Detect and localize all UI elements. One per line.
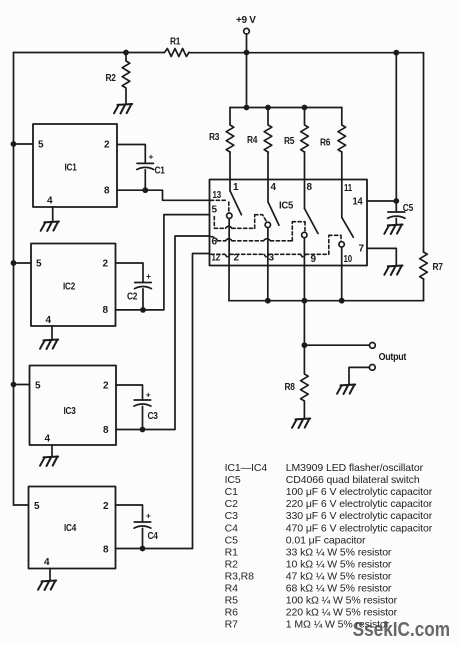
wire dashed control pin 13 to switch 1 [211,200,229,212]
svg-text:R5: R5 [284,136,295,147]
svg-text:+: + [146,511,151,521]
svg-text:+9 V: +9 V [236,15,256,26]
svg-text:C3: C3 [225,510,238,522]
svg-text:8: 8 [103,425,109,436]
ground IC1 pin 4 [41,222,59,232]
svg-text:7: 7 [359,244,365,255]
node junction +9V on bus [244,105,250,111]
wire output bus [229,300,424,302]
wire dashed control pin 6 to switch 3 [211,222,306,241]
node junction R4 on bus [265,105,271,111]
svg-text:Output: Output [379,352,407,363]
wire IC4 pin 8 to IC5 pin 12 [116,254,210,549]
svg-text:220 μF 6 V electrolytic capaci: 220 μF 6 V electrolytic capacitor [286,498,433,510]
ground output return [337,385,355,395]
switch 2 arm [268,202,279,225]
svg-text:5: 5 [34,501,40,512]
node junction IC4 pin 8 / C4 [140,546,146,552]
switch 4 arm [342,217,354,237]
op IC2 block [31,244,116,327]
wire IC2 pin 4 stub [51,326,53,340]
node junction +9V/top rail [244,50,250,56]
svg-text:10 kΩ ¼ W 5% resistor: 10 kΩ ¼ W 5% resistor [286,558,392,570]
switch 4 contact [339,242,344,247]
svg-text:2: 2 [103,501,109,512]
svg-text:IC1—IC4: IC1—IC4 [225,462,268,474]
svg-text:C5: C5 [403,203,414,214]
svg-text:5: 5 [212,205,218,216]
resistor R5 [284,108,308,153]
wire top rail right of R1 [189,52,424,54]
svg-text:4: 4 [47,196,53,207]
wire dashed control pin 5 to switch 2 [214,215,266,229]
node junction IC1 pin 8 / C1 [142,187,148,193]
capacitor C5 [388,201,414,218]
svg-text:LM3909 LED flasher/oscillator: LM3909 LED flasher/oscillator [286,462,424,474]
svg-text:R3: R3 [209,132,220,143]
wire lower output terminal to ground [349,367,369,384]
wire IC3 pin 5 [14,384,30,386]
svg-text:C2: C2 [225,498,238,510]
svg-text:R2: R2 [106,73,117,84]
wire R5 to IC5 pin 8 switch arm [304,152,306,209]
node junction pin 10 on output bus [339,298,345,304]
ground IC2 pin 4 [40,340,58,350]
node junction pin 14 / C5 [393,198,399,204]
wire pin 7 to ground [367,248,396,265]
hop bump over pin2 wire on control 6 [226,239,233,241]
svg-text:8: 8 [307,182,313,193]
svg-text:C1: C1 [155,166,166,177]
svg-text:8: 8 [104,186,110,197]
output terminal upper [370,343,407,364]
svg-text:R3,R8: R3,R8 [225,571,255,583]
resistor R8 [285,345,309,418]
output terminal lower [369,365,375,371]
wire IC4 pin 4 stub [49,569,51,581]
svg-text:47 kΩ ¼ W 5% resistor: 47 kΩ ¼ W 5% resistor [286,571,392,583]
wire IC2 pin 2 to C2 [116,263,144,282]
svg-text:C4: C4 [148,531,159,542]
svg-text:1: 1 [233,182,239,193]
svg-text:2: 2 [104,140,110,151]
wire C1 to pin 8 node [144,170,146,191]
wire pin 14 to C5 node [367,200,396,202]
svg-text:R6: R6 [225,607,238,619]
svg-text:11: 11 [344,183,353,194]
op-amp IC5 quad bilateral switch box [210,180,368,266]
node junction IC3 pin 5 on bus [11,382,17,388]
hop bump over pin3 wire on control 6 [264,239,271,241]
svg-text:IC5: IC5 [225,474,241,486]
svg-text:R4: R4 [225,583,238,595]
svg-text:4: 4 [44,557,50,568]
op IC3 block [30,366,117,446]
ground below R2 [114,104,132,114]
wire output bus down to output node [303,301,305,346]
svg-text:14: 14 [353,197,364,208]
wire dashed control pin 12 to switch 4 [211,235,341,257]
wire R7 bottom to output bus [423,279,425,301]
svg-text:2: 2 [103,259,109,270]
resistor R7 [420,252,444,279]
svg-text:220 kΩ ¼ W 5% resistor: 220 kΩ ¼ W 5% resistor [286,607,398,619]
svg-text:R1: R1 [225,546,238,558]
wire C4 to pin 8 node [142,528,144,548]
svg-text:33 kΩ ¼ W 5% resistor: 33 kΩ ¼ W 5% resistor [286,546,392,558]
svg-text:R2: R2 [225,558,238,570]
node junction IC2 pin 5 on bus [11,260,17,266]
wire IC4 pin 5 from bus corner [14,504,29,506]
svg-text:R8: R8 [285,382,296,393]
ground IC4 pin 4 [38,581,56,591]
svg-text:C4: C4 [225,522,238,534]
svg-text:68 kΩ ¼ W 5% resistor: 68 kΩ ¼ W 5% resistor [286,583,392,595]
svg-text:SsekIC.com: SsekIC.com [353,618,451,641]
resistor R4 [247,108,272,153]
svg-text:C5: C5 [225,534,238,546]
svg-text:5: 5 [36,259,42,270]
resistor R1 [165,37,190,57]
svg-text:IC1: IC1 [65,163,78,174]
capacitor C3 [134,390,158,423]
node junction output / R8 [302,342,308,348]
wire R3 to IC5 pin 1 switch arm [229,152,231,191]
wire switch 3 contact to pin 9 [303,238,305,301]
wire IC3 pin 2 to C3 [116,385,143,400]
svg-text:100 μF 6 V electrolytic capaci: 100 μF 6 V electrolytic capacitor [286,486,433,498]
node junction IC2 pin 8 / C2 [140,307,146,313]
wire +9V terminal to top rail [246,34,248,53]
wire IC3 pin 4 stub [51,445,53,457]
wire +9V down to resistor bus [246,53,248,108]
node junction pin 9 on output bus [302,298,308,304]
switch 3 contact [302,232,307,237]
wire C5 to ground [395,218,397,224]
svg-text:+: + [149,152,154,162]
wire IC1 pin 4 stub [52,207,54,222]
svg-text:R4: R4 [247,135,258,146]
wire IC2 pin 8 to IC5 pin 5 [116,215,210,310]
svg-text:5: 5 [38,140,44,151]
wire IC2 pin 5 [14,262,32,264]
node junction R5 on bus [302,105,308,111]
op IC4 block [29,487,116,569]
svg-text:R6: R6 [320,138,331,149]
svg-text:R7: R7 [225,619,238,631]
wire IC3 pin 8 to IC5 pin 6 [116,236,210,430]
node junction pin 3 on output bus [265,298,271,304]
switch 1 arm [230,191,241,215]
resistor R6 [320,108,346,153]
wire R4 to IC5 pin 4 switch arm [267,152,269,202]
svg-text:8: 8 [103,305,109,316]
node junction IC3 pin 8 / C3 [140,427,146,433]
resistor R2 [106,53,130,105]
svg-text:C2: C2 [127,292,138,303]
wire C2 to pin 8 node [142,289,144,310]
svg-text:4: 4 [271,182,277,193]
wire top rail left of R1 [14,52,165,54]
capacitor C1 [137,152,166,177]
wire IC1 pin 5 [14,143,34,145]
switch 3 arm [305,209,319,234]
wire R6 to IC5 pin 11 switch arm [341,152,343,217]
svg-text:0.01 μF capacitor: 0.01 μF capacitor [286,534,366,546]
svg-text:13: 13 [213,190,222,201]
node junction IC1 pin 5 on bus [11,141,17,147]
capacitor C4 [134,511,158,543]
switch 1 contact [227,213,232,218]
wire IC1 pin 2 to C1 [117,145,145,164]
ground IC3 pin 4 [40,457,58,467]
capacitor C2 [127,271,151,303]
hop bump over pin2 wire on control 5 [226,226,233,228]
svg-text:C1: C1 [225,486,238,498]
svg-text:IC5: IC5 [279,201,294,212]
wire switch 4 contact to pin 10 [341,247,343,301]
svg-text:8: 8 [103,545,109,556]
svg-text:2: 2 [103,381,109,392]
svg-text:IC3: IC3 [64,406,77,417]
svg-text:IC2: IC2 [63,282,76,293]
node junction top rail to C5 branch [393,50,399,56]
svg-text:10: 10 [344,254,353,265]
svg-text:R7: R7 [433,262,444,273]
wire left supply bus [13,53,15,506]
svg-text:CD4066 quad bilateral switch: CD4066 quad bilateral switch [286,474,420,486]
op IC1 block [33,124,117,207]
parts list legend [225,462,433,631]
wire to output terminal [304,344,369,346]
svg-text:IC4: IC4 [64,523,77,534]
svg-text:5: 5 [35,381,41,392]
wire switch 2 contact to pin 3 [267,228,269,301]
node junction R2/top rail [123,50,129,56]
svg-text:9: 9 [311,254,317,265]
svg-text:R1: R1 [170,37,181,48]
wire right-side drop to R7 [423,53,425,252]
ground pin 7 [384,266,402,276]
+9 V supply terminal [236,15,256,34]
switch 2 contact [265,222,270,227]
svg-text:330 μF 6 V electrolytic capaci: 330 μF 6 V electrolytic capacitor [286,510,433,522]
ground below C5 [384,225,402,235]
svg-text:100 kΩ ¼ W 5% resistor: 100 kΩ ¼ W 5% resistor [286,595,398,607]
wire C3 to pin 8 node [142,406,144,429]
svg-text:+: + [146,390,151,400]
svg-text:R5: R5 [225,595,238,607]
wire C5 branch drop to pin 14 [395,53,397,201]
wire IC1 pin 8 to IC5 pin 13 [117,190,210,200]
svg-text:4: 4 [46,315,52,326]
resistor R3 [209,108,234,153]
wire IC4 pin 2 to C4 [116,505,143,522]
ground below R8 [292,419,310,429]
wire resistor top bus [230,107,342,109]
wire switch 1 contact to pin 2 [228,218,230,300]
svg-text:470 μF 6 V electrolytic capaci: 470 μF 6 V electrolytic capacitor [286,522,433,534]
svg-text:+: + [146,271,151,281]
svg-text:4: 4 [45,434,51,445]
svg-text:C3: C3 [148,411,159,422]
